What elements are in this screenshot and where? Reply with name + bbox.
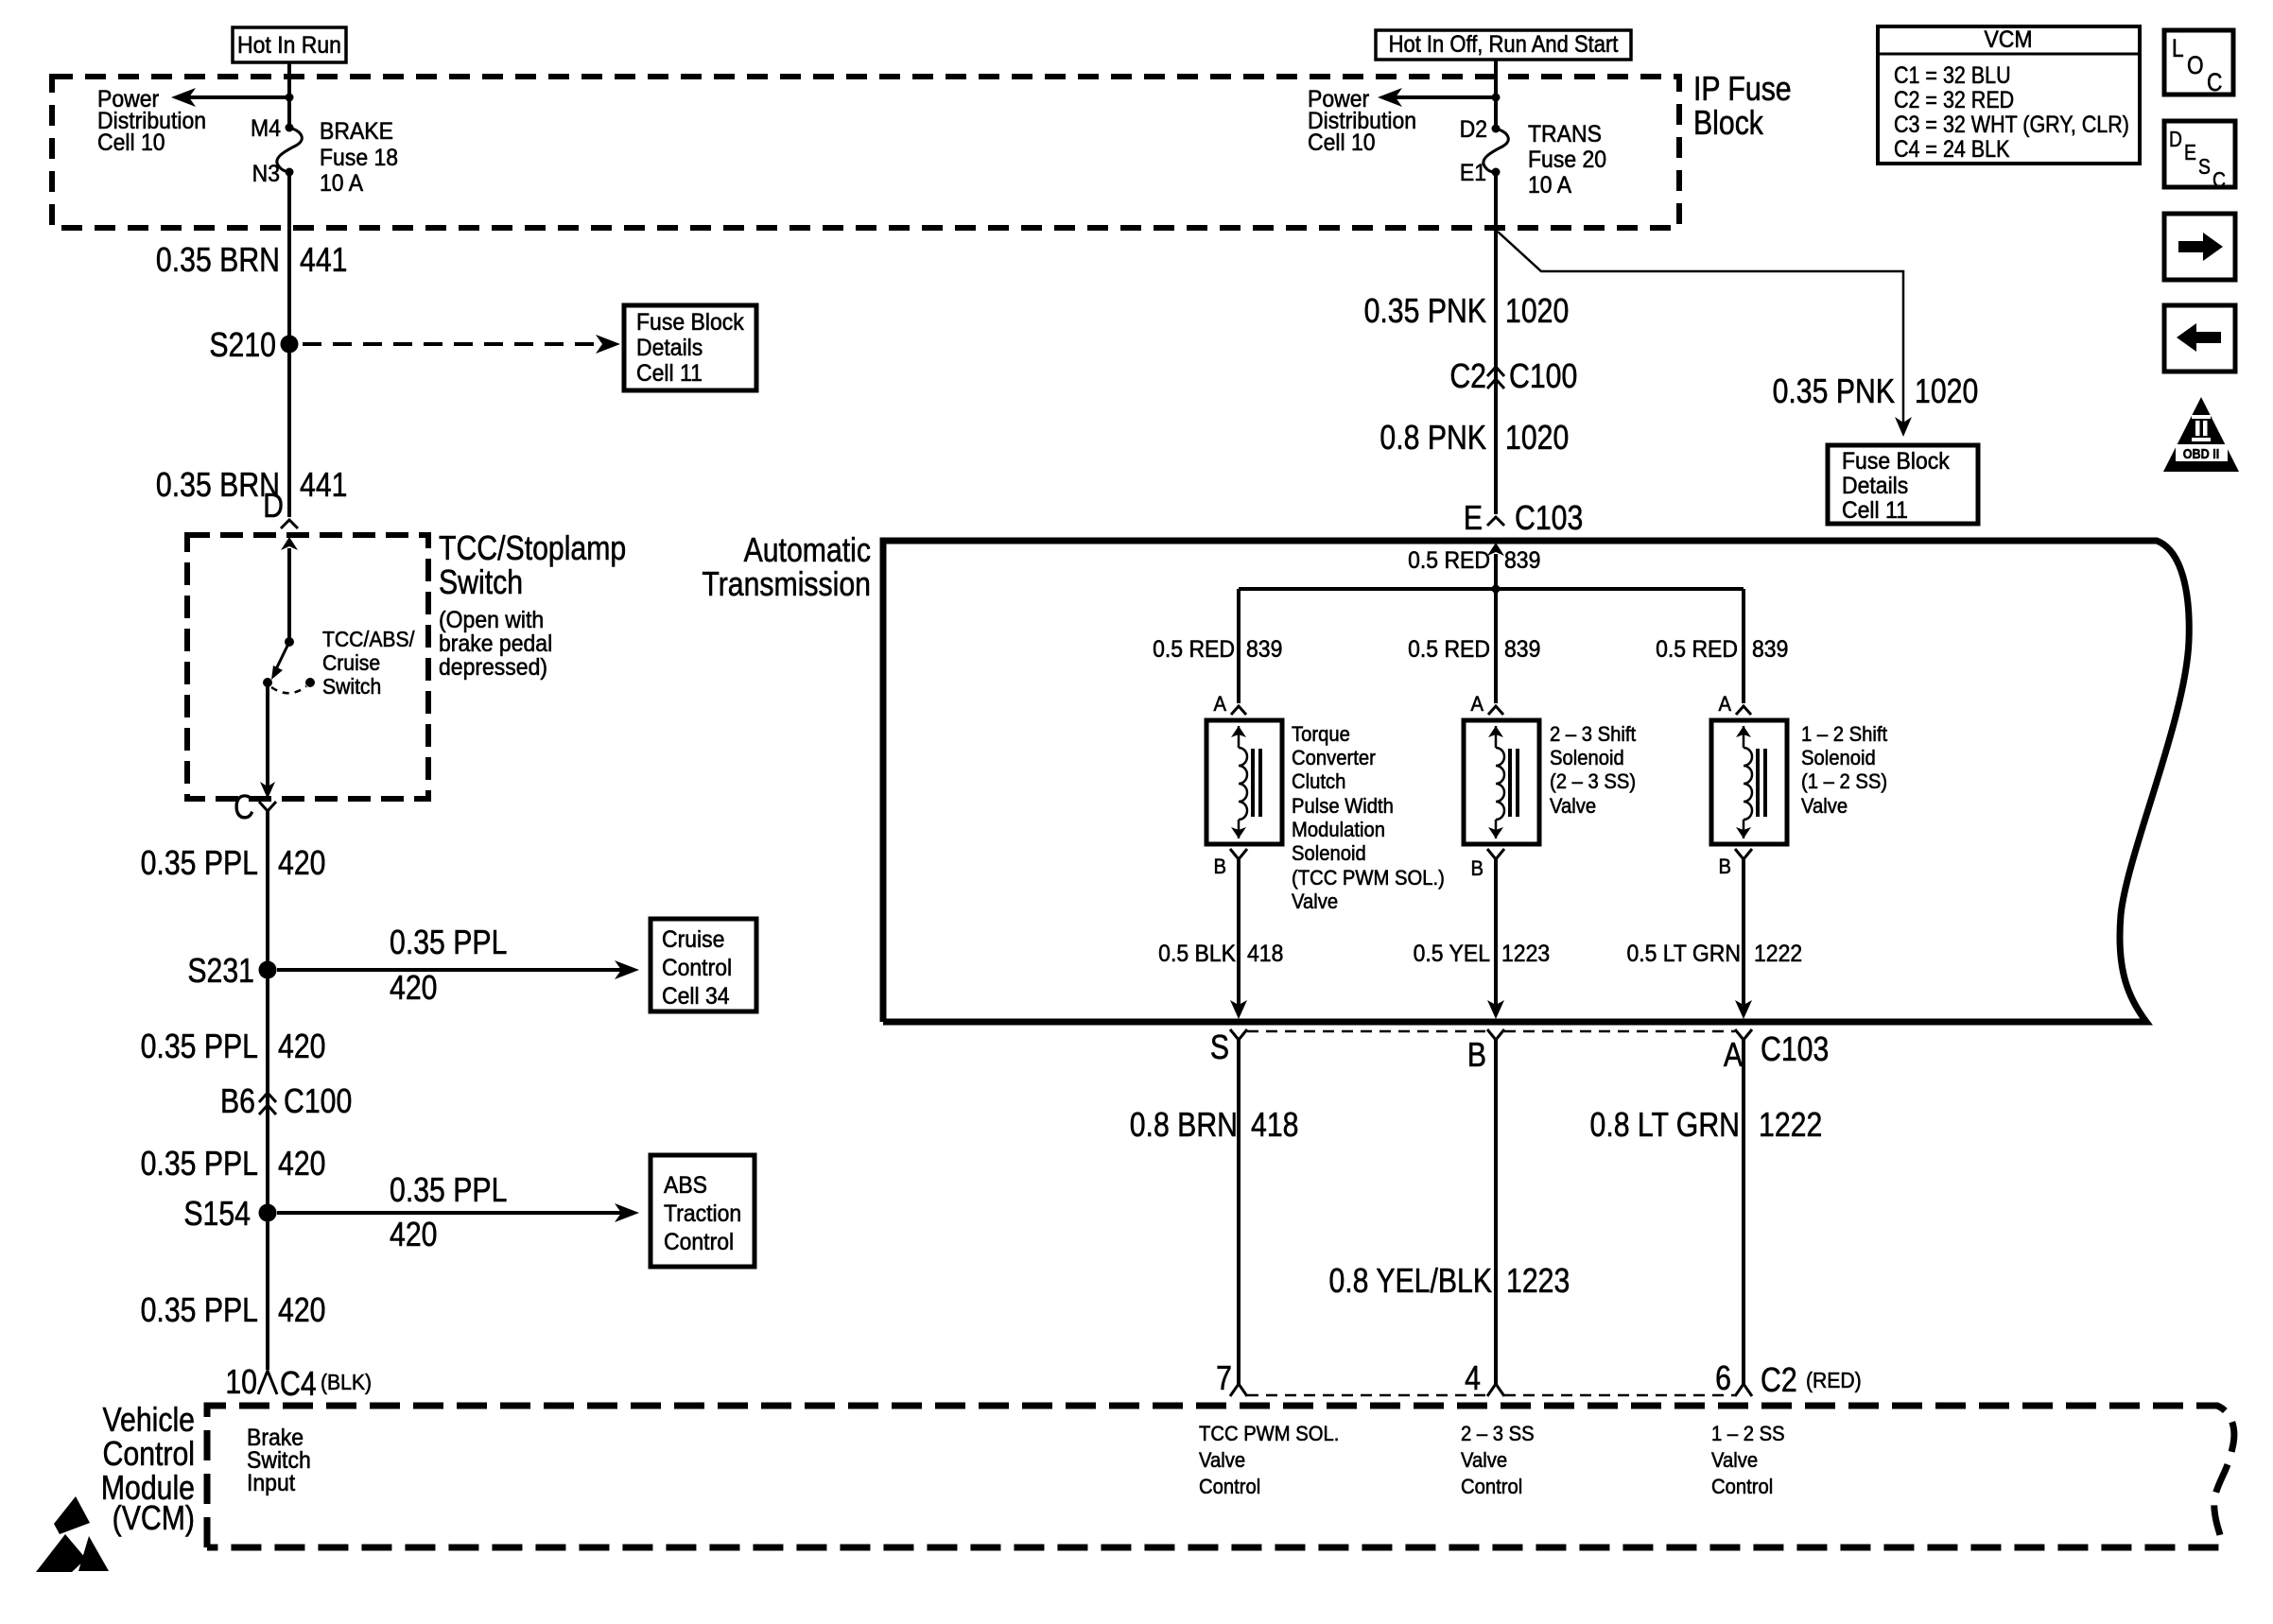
svg-text:C2 = 32 RED: C2 = 32 RED [1894, 86, 2014, 112]
svg-text:Fuse 20: Fuse 20 [1528, 147, 1606, 173]
svg-text:0.35 PPL: 0.35 PPL [390, 1172, 507, 1210]
svg-text:Hot In Off, Run And Start: Hot In Off, Run And Start [1389, 31, 1619, 58]
svg-text:Modulation: Modulation [1292, 819, 1385, 841]
svg-text:2 – 3 Shift: 2 – 3 Shift [1550, 723, 1636, 746]
svg-text:6: 6 [1715, 1360, 1731, 1398]
wire branch to power distribution [189, 95, 289, 99]
svg-text:C4 = 24 BLK: C4 = 24 BLK [1894, 135, 2010, 162]
svg-text:Cell 10: Cell 10 [1308, 130, 1376, 156]
svg-text:(RED): (RED) [1806, 1368, 1862, 1392]
Cruise Control Cell 34 box [651, 919, 756, 1011]
svg-text:0.35 BRN: 0.35 BRN [156, 467, 280, 505]
wire from Hot In Run into fuse block [287, 62, 291, 128]
svg-text:0.8 PNK: 0.8 PNK [1379, 420, 1486, 458]
svg-text:0.5 RED: 0.5 RED [1408, 547, 1490, 574]
svg-text:E: E [1464, 500, 1483, 538]
wire 418 to VCM [1237, 1040, 1241, 1384]
svg-text:A: A [1471, 693, 1484, 716]
svg-text:420: 420 [390, 1217, 437, 1254]
fuse F18 terminal M4 [286, 124, 294, 132]
node: power distribution branch junction (middle) [1492, 94, 1501, 102]
svg-text:4: 4 [1465, 1360, 1481, 1398]
svg-text:0.35 PPL: 0.35 PPL [141, 1146, 258, 1183]
switch lower contact [263, 678, 272, 687]
label Torque Converter Clutch PWM solenoid [1292, 723, 1445, 913]
connector C103 dashed link [1247, 1030, 1487, 1033]
svg-text:C103: C103 [1515, 500, 1583, 538]
svg-text:Traction: Traction [664, 1201, 741, 1227]
svg-text:Solenoid: Solenoid [1292, 842, 1366, 865]
svg-text:Input: Input [247, 1470, 295, 1496]
svg-text:420: 420 [278, 1292, 325, 1330]
svg-text:10 A: 10 A [1528, 172, 1571, 199]
connector pin 10 C4 (BLK) [225, 1364, 372, 1404]
splice node S210 [281, 336, 299, 354]
wire 420 from S231 to C100 [266, 970, 269, 1213]
svg-text:418: 418 [1251, 1107, 1298, 1145]
svg-text:O: O [2187, 51, 2204, 79]
svg-text:0.5 BLK: 0.5 BLK [1158, 941, 1236, 967]
OBD II icon [2163, 397, 2239, 472]
svg-text:0.35 PPL: 0.35 PPL [141, 1028, 258, 1066]
ABS Traction Control box [651, 1155, 755, 1267]
svg-text:C2: C2 [1761, 1362, 1797, 1400]
wire 1020 from fuse down [1494, 172, 1498, 514]
svg-text:Solenoid: Solenoid [1801, 747, 1876, 769]
LOC icon [2164, 30, 2233, 96]
svg-text:Valve: Valve [1461, 1449, 1507, 1472]
svg-text:Control: Control [662, 955, 732, 981]
svg-text:Valve: Valve [1711, 1449, 1758, 1472]
svg-text:Vehicle: Vehicle [103, 1402, 195, 1440]
svg-text:B: B [1214, 855, 1226, 878]
label TCC PWM SOL. Valve Control [1199, 1423, 1339, 1498]
switch blade with arrow [274, 642, 289, 673]
svg-text:Control: Control [664, 1229, 734, 1255]
svg-text:(BLK): (BLK) [321, 1370, 372, 1394]
Hot In Run box [233, 27, 346, 62]
svg-text:E1: E1 [1460, 160, 1486, 186]
svg-text:(Open with: (Open with [439, 607, 544, 633]
svg-text:1222: 1222 [1759, 1107, 1822, 1145]
svg-text:420: 420 [278, 845, 325, 883]
Hot In Off, Run And Start box [1376, 30, 1631, 60]
label Vehicle Control Module (VCM) [101, 1402, 195, 1538]
fuse F20 terminal E1 [1492, 168, 1501, 177]
svg-text:S210: S210 [209, 327, 276, 365]
svg-text:Cell 10: Cell 10 [97, 130, 165, 156]
svg-text:839: 839 [1752, 636, 1788, 663]
svg-text:BRAKE: BRAKE [320, 118, 393, 145]
svg-text:Block: Block [1693, 105, 1763, 143]
svg-text:TRANS: TRANS [1528, 121, 1602, 147]
wire arrow into transmission [1487, 543, 1504, 556]
wire 1223 to VCM [1494, 1040, 1498, 1384]
svg-text:S: S [1210, 1029, 1229, 1067]
svg-text:Cruise: Cruise [322, 650, 380, 675]
svg-text:M4: M4 [251, 115, 281, 142]
svg-text:Converter: Converter [1292, 747, 1376, 769]
svg-text:Valve: Valve [1292, 890, 1338, 913]
svg-text:Cell 11: Cell 11 [1842, 497, 1908, 524]
connector C2 dashed link [1247, 1394, 1487, 1397]
wire 441 from fuse to S210 [287, 172, 291, 344]
svg-text:C100: C100 [1509, 358, 1577, 396]
svg-text:1020: 1020 [1505, 293, 1569, 331]
svg-text:0.35 PPL: 0.35 PPL [141, 1292, 258, 1330]
fuse BRAKE Fuse 18 10 A element [277, 128, 302, 172]
splice node S154 [259, 1204, 277, 1222]
svg-text:10 A: 10 A [320, 170, 363, 197]
1-2 shift solenoid coil [1711, 720, 1787, 844]
svg-text:C: C [2212, 169, 2226, 193]
left arrow icon [2164, 305, 2235, 371]
wire LT GRN 1222 down [1742, 859, 1745, 1008]
Fuse Block Details Cell 11 box (right) [1828, 445, 1978, 524]
svg-text:C2: C2 [1449, 358, 1486, 396]
svg-text:Solenoid: Solenoid [1550, 747, 1624, 769]
svg-text:1223: 1223 [1501, 941, 1550, 967]
svg-text:L: L [2172, 34, 2184, 62]
label 2-3 Shift Solenoid [1550, 723, 1636, 818]
svg-text:B: B [1719, 855, 1731, 878]
IP fuse block dashed box [52, 77, 1679, 228]
svg-text:0.8 BRN: 0.8 BRN [1130, 1107, 1238, 1145]
svg-text:Torque: Torque [1292, 723, 1350, 746]
svg-text:Hot In Run: Hot In Run [237, 32, 341, 59]
svg-text:A: A [1214, 693, 1227, 716]
VCM dashed box [207, 1406, 2234, 1547]
label Brake Switch Input [247, 1425, 311, 1496]
wire 441 from S210 to connector D [287, 344, 291, 517]
svg-text:Transmission: Transmission [702, 566, 871, 604]
wire 1222 to VCM [1742, 1040, 1745, 1384]
svg-text:A: A [1724, 1037, 1744, 1075]
wire from Hot In Off into fuse block [1494, 60, 1498, 129]
svg-text:D: D [263, 488, 284, 526]
svg-text:Fuse Block: Fuse Block [1842, 448, 1951, 475]
svg-text:OBD II: OBD II [2183, 445, 2219, 461]
wire drop to 2-3 solenoid [1494, 589, 1498, 703]
svg-text:TCC/Stoplamp: TCC/Stoplamp [439, 530, 626, 568]
svg-text:Fuse 18: Fuse 18 [320, 145, 398, 171]
label Power Distribution Cell 10 (middle) [1308, 86, 1416, 156]
svg-text:Switch: Switch [322, 674, 381, 699]
svg-text:1020: 1020 [1915, 373, 1978, 411]
wire drop to TCC solenoid [1237, 589, 1241, 703]
wire arrow into TCC switch [281, 537, 298, 550]
label 2-3 SS Valve Control [1461, 1423, 1535, 1498]
svg-text:B: B [1467, 1037, 1486, 1075]
svg-text:D2: D2 [1460, 116, 1487, 143]
svg-text:Details: Details [1842, 473, 1908, 499]
2-3 shift solenoid coil [1464, 720, 1539, 844]
node: solenoid feed junction [1492, 585, 1501, 594]
svg-text:1222: 1222 [1754, 941, 1802, 967]
svg-text:S231: S231 [187, 953, 254, 991]
TCC PWM solenoid coil U1 [1206, 720, 1282, 844]
svg-text:1 – 2 Shift: 1 – 2 Shift [1801, 723, 1887, 746]
connector E C103 [1464, 500, 1583, 538]
svg-text:Switch: Switch [439, 564, 523, 602]
svg-text:Control: Control [103, 1436, 195, 1474]
Automatic Transmission box [883, 541, 2189, 1022]
fuse TRANS Fuse 20 10 A element [1484, 129, 1508, 172]
svg-text:TCC PWM SOL.: TCC PWM SOL. [1199, 1423, 1339, 1445]
svg-text:10: 10 [225, 1364, 257, 1402]
svg-text:418: 418 [1247, 941, 1283, 967]
fuse F18 terminal N3 [286, 168, 294, 177]
svg-text:Cruise: Cruise [662, 926, 724, 953]
svg-text:0.5 RED: 0.5 RED [1656, 636, 1738, 663]
svg-text:C3 = 32 WHT (GRY, CLR): C3 = 32 WHT (GRY, CLR) [1894, 111, 2129, 137]
VCM connector legend box [1878, 26, 2140, 164]
switch upper contact [285, 637, 294, 647]
wire arrow from S231 to cruise control [277, 968, 622, 972]
svg-text:E: E [2184, 142, 2196, 165]
svg-text:7: 7 [1216, 1360, 1232, 1398]
Fuse Block Details Cell 11 box (left) [624, 305, 756, 390]
svg-text:839: 839 [1504, 547, 1540, 574]
wire from switch to connector C [266, 682, 269, 786]
svg-text:C1 = 32 BLU: C1 = 32 BLU [1894, 61, 2011, 88]
svg-text:C100: C100 [284, 1083, 352, 1121]
svg-text:0.35 PNK: 0.35 PNK [1364, 293, 1486, 331]
svg-text:ABS: ABS [664, 1172, 707, 1199]
svg-text:C: C [2207, 68, 2222, 96]
svg-text:Control: Control [1711, 1476, 1773, 1498]
label TCC/ABS/Cruise Switch [322, 627, 415, 699]
svg-text:Details: Details [636, 335, 703, 361]
label Power Distribution Cell 10 (left) [97, 86, 206, 156]
svg-text:0.5 YEL: 0.5 YEL [1414, 941, 1490, 967]
svg-text:0.35 PPL: 0.35 PPL [141, 845, 258, 883]
svg-text:N3: N3 [252, 161, 280, 187]
svg-text:Control: Control [1199, 1476, 1260, 1498]
svg-text:Pulse Width: Pulse Width [1292, 795, 1394, 818]
wire BLK 418 down [1237, 859, 1241, 1008]
svg-text:0.35 PPL: 0.35 PPL [390, 924, 507, 962]
svg-text:0.8 YEL/BLK: 0.8 YEL/BLK [1328, 1263, 1492, 1301]
splice node S231 [259, 961, 277, 979]
svg-text:Control: Control [1461, 1476, 1522, 1498]
svg-text:S: S [2198, 156, 2211, 180]
fuse F20 terminal D2 [1492, 125, 1501, 133]
svg-text:(VCM): (VCM) [113, 1500, 195, 1538]
svg-text:0.35 PNK: 0.35 PNK [1773, 373, 1895, 411]
svg-text:0.8 LT GRN: 0.8 LT GRN [1590, 1107, 1740, 1145]
svg-text:A: A [1719, 693, 1732, 716]
svg-text:Valve: Valve [1550, 795, 1596, 818]
svg-text:2 – 3 SS: 2 – 3 SS [1461, 1423, 1535, 1445]
svg-text:S154: S154 [183, 1196, 251, 1234]
svg-text:420: 420 [278, 1028, 325, 1066]
wire 420 from C to S231 [266, 811, 269, 970]
wire 420 from S154 to VCM pin 10 [266, 1213, 269, 1370]
svg-text:C103: C103 [1761, 1031, 1829, 1069]
connector C2 C100 [1449, 358, 1577, 396]
wire drop to 1-2 solenoid [1742, 589, 1745, 703]
svg-text:Cell 11: Cell 11 [636, 360, 703, 387]
svg-text:(TCC PWM SOL.): (TCC PWM SOL.) [1292, 867, 1445, 890]
svg-text:Valve: Valve [1801, 795, 1848, 818]
svg-text:Automatic: Automatic [744, 532, 871, 570]
svg-text:Valve: Valve [1199, 1449, 1245, 1472]
wire bus RED 839 [1239, 587, 1744, 591]
wire YEL 1223 down [1494, 859, 1498, 1008]
svg-text:420: 420 [390, 970, 437, 1008]
svg-text:Fuse Block: Fuse Block [636, 309, 745, 336]
svg-text:441: 441 [300, 242, 347, 280]
svg-text:TCC/ABS/: TCC/ABS/ [322, 627, 415, 651]
svg-text:0.5 RED: 0.5 RED [1408, 636, 1490, 663]
switch alternate contact (cruise) [271, 686, 306, 693]
svg-text:C4: C4 [280, 1366, 317, 1404]
svg-text:brake pedal: brake pedal [439, 631, 552, 657]
svg-text:B: B [1471, 857, 1484, 880]
svg-text:0.5 RED: 0.5 RED [1153, 636, 1235, 663]
right arrow icon [2164, 214, 2235, 280]
ESD sensitive symbol [36, 1496, 109, 1572]
svg-text:1 – 2 SS: 1 – 2 SS [1711, 1423, 1785, 1445]
svg-text:0.35 BRN: 0.35 BRN [156, 242, 280, 280]
svg-text:IP Fuse: IP Fuse [1693, 71, 1792, 109]
wire arrow from S154 to ABS [277, 1211, 622, 1215]
svg-text:VCM: VCM [1984, 26, 2032, 53]
label 1-2 Shift Solenoid [1801, 723, 1887, 818]
svg-text:(2 – 3 SS): (2 – 3 SS) [1550, 770, 1636, 793]
label 1-2 SS Valve Control [1711, 1423, 1785, 1498]
wire branch to power distribution (middle) [1396, 95, 1496, 99]
TCC/Stoplamp Switch dashed box [187, 535, 428, 799]
svg-text:0.5 LT GRN: 0.5 LT GRN [1626, 941, 1741, 967]
svg-text:(1 – 2 SS): (1 – 2 SS) [1801, 770, 1887, 793]
svg-text:C: C [234, 789, 254, 827]
svg-text:1223: 1223 [1506, 1263, 1570, 1301]
svg-text:839: 839 [1504, 636, 1540, 663]
node: power distribution branch junction [286, 94, 294, 102]
svg-text:Cell 34: Cell 34 [662, 983, 730, 1010]
wire tap to fuse block details (diagonal) [1498, 232, 1903, 425]
svg-text:B6: B6 [220, 1083, 255, 1121]
svg-text:Clutch: Clutch [1292, 770, 1345, 793]
svg-text:1020: 1020 [1505, 420, 1569, 458]
svg-text:839: 839 [1246, 636, 1282, 663]
svg-text:441: 441 [300, 467, 347, 505]
svg-text:depressed): depressed) [439, 654, 547, 681]
dashed reference arrow from S210 [303, 342, 605, 346]
DESC icon [2164, 121, 2235, 192]
svg-text:D: D [2169, 129, 2182, 152]
connector B6 C100 [220, 1083, 352, 1121]
svg-text:420: 420 [278, 1146, 325, 1183]
